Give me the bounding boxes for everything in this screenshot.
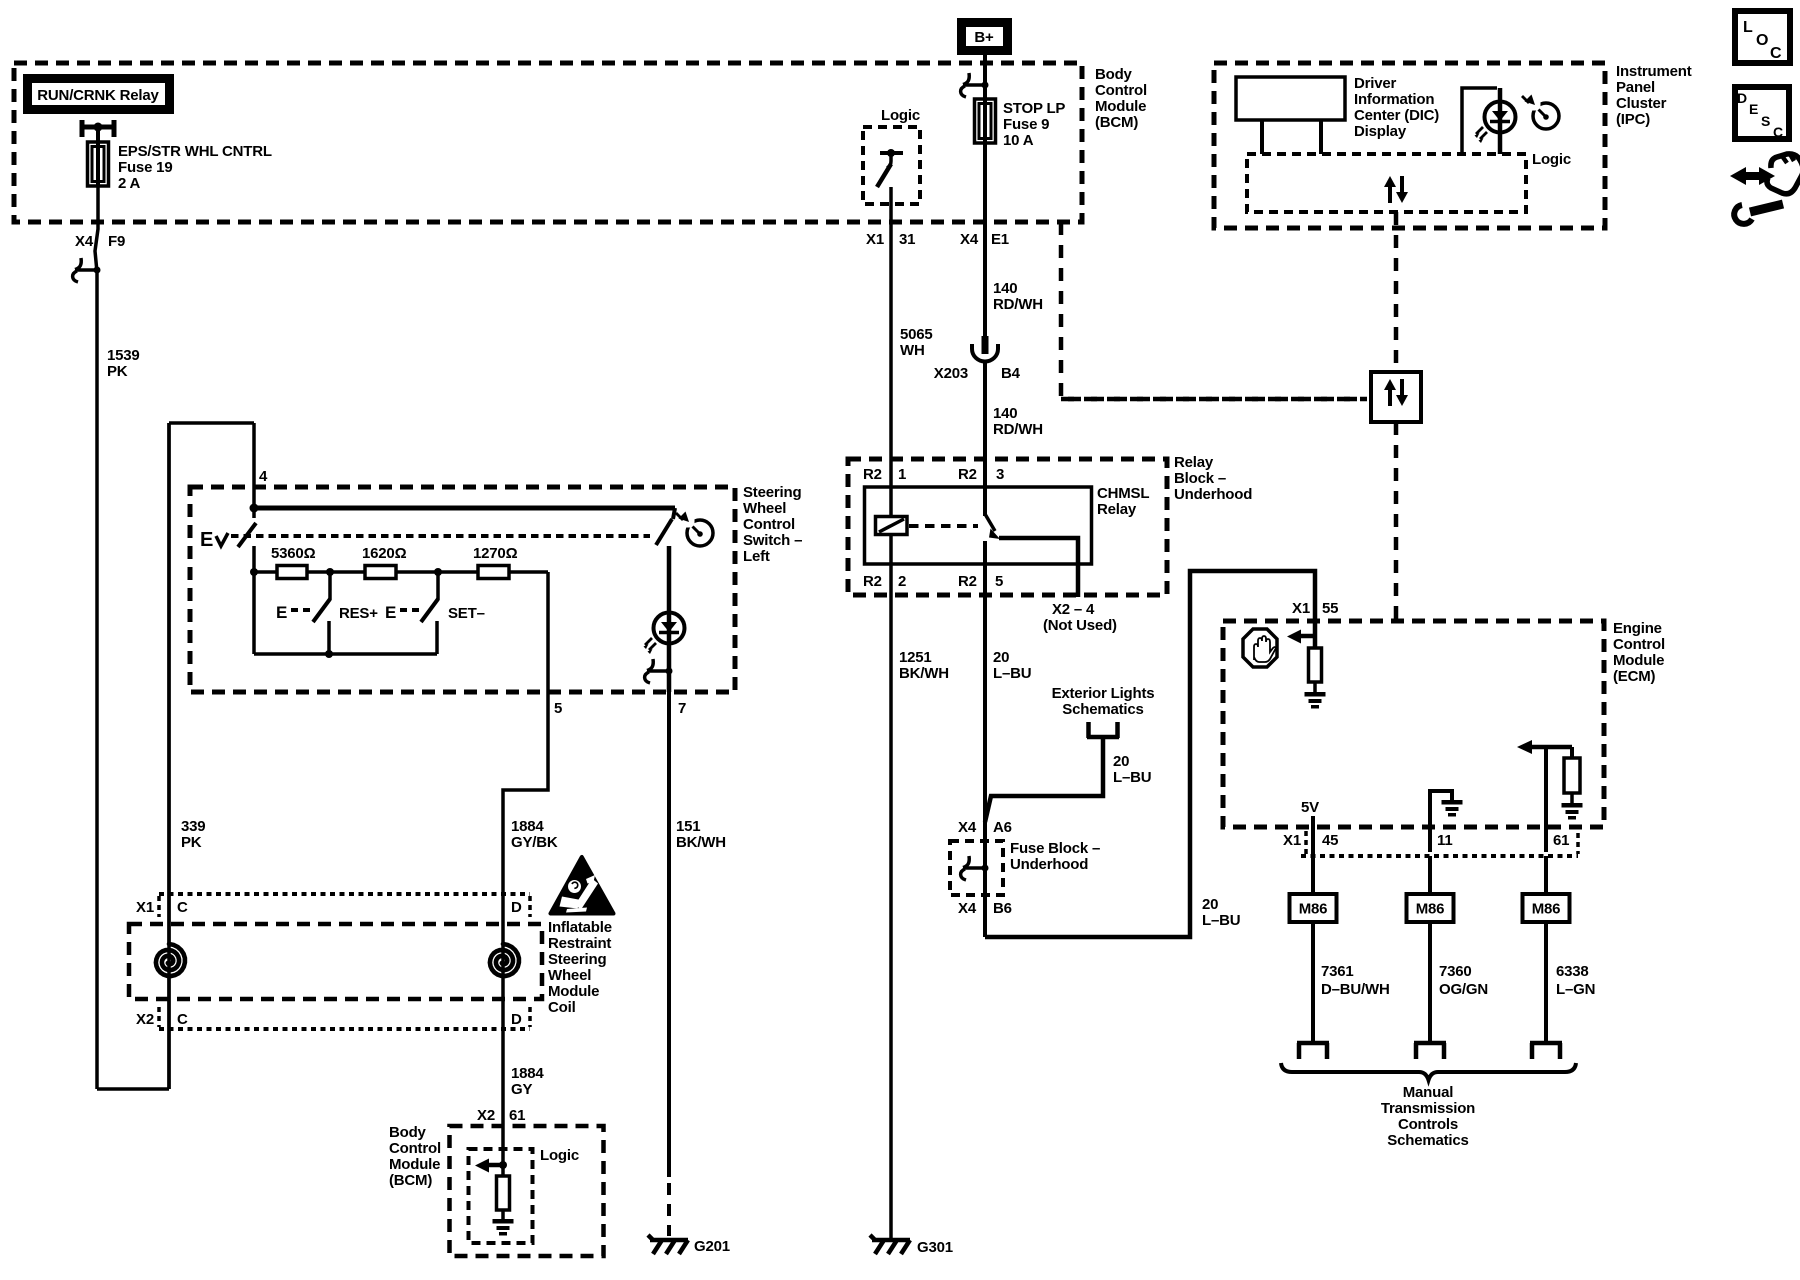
svg-text:Display: Display bbox=[1354, 123, 1407, 140]
wire DIC legs bbox=[1262, 120, 1321, 154]
relay K2 CHMSL Relay box bbox=[865, 487, 1092, 564]
brace manual transmission group bbox=[1281, 1063, 1576, 1080]
LED cruise indicator in switch bbox=[667, 546, 672, 613]
cruise control gauge icon bbox=[676, 512, 713, 547]
mechanical dashed link coil to contacts bbox=[909, 524, 978, 528]
resistor R3 1270 ohm bbox=[473, 545, 518, 579]
connector M86 pin61 bbox=[1523, 894, 1570, 922]
clip below LED bbox=[645, 659, 673, 683]
node pin4 junction bbox=[250, 504, 259, 513]
svg-text:20: 20 bbox=[1202, 896, 1218, 913]
terminal bracket 7360 bbox=[1414, 1043, 1446, 1059]
connector R2 pin 1 and pin 3 labels bbox=[863, 466, 1004, 483]
serial data dashed wire junction box to ECM bbox=[1394, 422, 1399, 621]
serial data junction box with arrows bbox=[1371, 372, 1421, 422]
wire LED to clip bbox=[667, 643, 672, 692]
svg-text:Restraint: Restraint bbox=[548, 935, 611, 952]
svg-text:G301: G301 bbox=[917, 1239, 953, 1256]
svg-text:5065: 5065 bbox=[900, 326, 933, 343]
Relay Block - Underhood box bbox=[848, 459, 1167, 595]
BCM lower label bbox=[389, 1124, 441, 1189]
svg-text:Exterior Lights: Exterior Lights bbox=[1052, 685, 1155, 702]
svg-text:L–BU: L–BU bbox=[1113, 769, 1151, 786]
serial data dashed wire IPC to junction box bbox=[1394, 212, 1399, 372]
svg-text:E: E bbox=[385, 603, 396, 622]
svg-text:11: 11 bbox=[1437, 832, 1452, 849]
wire LED leg bbox=[1498, 88, 1503, 154]
svg-text:X203: X203 bbox=[934, 365, 968, 382]
svg-text:A6: A6 bbox=[993, 819, 1012, 836]
svg-text:(IPC): (IPC) bbox=[1616, 111, 1650, 128]
svg-text:Control: Control bbox=[1613, 636, 1665, 653]
svg-text:X1: X1 bbox=[136, 899, 154, 916]
clip inside fuse block bbox=[961, 856, 989, 880]
svg-text:140: 140 bbox=[993, 405, 1017, 422]
svg-text:5V: 5V bbox=[1301, 799, 1319, 816]
svg-text:PK: PK bbox=[181, 834, 202, 851]
mechanical link dashed EV to cruise switch bbox=[231, 534, 650, 538]
Exterior Lights Schematics reference label bbox=[1052, 685, 1155, 718]
svg-text:D: D bbox=[511, 899, 522, 916]
svg-text:151: 151 bbox=[676, 818, 700, 835]
svg-text:Fuse 9: Fuse 9 bbox=[1003, 116, 1049, 133]
svg-text:Relay: Relay bbox=[1097, 501, 1137, 518]
svg-text:E: E bbox=[1749, 101, 1758, 117]
CHMSL Relay label bbox=[1097, 485, 1149, 518]
Instrument Panel Cluster (IPC) box bbox=[1214, 63, 1605, 228]
wire label 20 L-BU right bbox=[1202, 896, 1240, 929]
svg-text:4: 4 bbox=[259, 468, 268, 485]
wire 5V reference to M86 bbox=[1311, 816, 1315, 894]
svg-text:140: 140 bbox=[993, 280, 1017, 297]
svg-text:55: 55 bbox=[1322, 600, 1338, 617]
svg-text:PK: PK bbox=[107, 363, 128, 380]
wire resistor to ground bbox=[501, 1165, 505, 1176]
wire 140 RD/WH from fuse 9 to X203 bbox=[983, 143, 987, 337]
svg-text:Driver: Driver bbox=[1354, 75, 1397, 92]
svg-text:D: D bbox=[511, 1011, 522, 1028]
svg-text:BK/WH: BK/WH bbox=[676, 834, 726, 851]
LED cruise indicator in IPC bbox=[1475, 102, 1516, 144]
svg-text:Cluster: Cluster bbox=[1616, 95, 1667, 112]
inline connector X203 pin B4 bbox=[934, 336, 1021, 382]
solid state driver switch inside BCM logic bbox=[877, 149, 903, 187]
wire resistor rail bbox=[254, 570, 548, 574]
stop hand icon bbox=[1243, 629, 1277, 667]
connector X1 pin 31 labels bbox=[866, 231, 915, 248]
connector M86 pin45 bbox=[1290, 894, 1337, 922]
svg-text:X4: X4 bbox=[958, 900, 977, 917]
serial data dashed link BCM to junction box bbox=[1061, 397, 1367, 402]
node C junction bbox=[434, 568, 442, 576]
battery feed B+ terminal bbox=[957, 18, 1012, 55]
Engine Control Module (ECM) box bbox=[1223, 621, 1604, 827]
resistor R2 1620 ohm bbox=[362, 545, 407, 579]
svg-text:X2 – 4: X2 – 4 bbox=[1052, 601, 1095, 618]
svg-text:STOP LP: STOP LP bbox=[1003, 100, 1065, 117]
svg-text:EPS/STR WHL CNTRL: EPS/STR WHL CNTRL bbox=[118, 143, 272, 160]
svg-text:G201: G201 bbox=[694, 1238, 730, 1255]
svg-text:Left: Left bbox=[743, 548, 770, 565]
svg-text:R2: R2 bbox=[958, 466, 977, 483]
svg-text:10 A: 10 A bbox=[1003, 132, 1034, 149]
bus bar feed from RUN/CRNK relay bbox=[82, 120, 114, 143]
svg-text:RES+: RES+ bbox=[339, 605, 378, 622]
svg-text:WH: WH bbox=[900, 342, 925, 359]
off page connector to exterior lights bbox=[1087, 722, 1119, 738]
svg-text:45: 45 bbox=[1322, 832, 1338, 849]
terminal bracket 6338 bbox=[1530, 1043, 1562, 1059]
svg-text:Fuse Block –: Fuse Block – bbox=[1010, 840, 1100, 857]
svg-text:S: S bbox=[1761, 113, 1770, 129]
clip at X4 F9 bbox=[73, 258, 101, 282]
svg-text:Manual: Manual bbox=[1403, 1084, 1454, 1101]
fuse F19 value label bbox=[118, 143, 272, 192]
resistor R4 BCM pull-down bbox=[497, 1176, 510, 1210]
connector X4 pin B6 labels bbox=[958, 900, 1012, 917]
svg-text:Wheel: Wheel bbox=[743, 500, 786, 517]
svg-text:OG/GN: OG/GN bbox=[1439, 981, 1488, 998]
svg-text:X4: X4 bbox=[960, 231, 979, 248]
wire label 20 L-BU branch bbox=[1113, 753, 1151, 786]
connector X1 row of coil module bbox=[136, 894, 530, 917]
Inflatable Restraint Steering Wheel Module Coil box bbox=[129, 924, 542, 999]
svg-text:Module: Module bbox=[389, 1156, 440, 1173]
svg-text:5360Ω: 5360Ω bbox=[271, 545, 316, 562]
connector X2 row of coil module bbox=[136, 1007, 530, 1029]
X2-4 Not Used label bbox=[1043, 601, 1117, 634]
svg-text:1251: 1251 bbox=[899, 649, 932, 666]
wire B+ into BCM bbox=[983, 55, 987, 99]
connector M86 pin11 bbox=[1407, 894, 1454, 922]
DIC label bbox=[1354, 75, 1439, 140]
svg-text:Switch –: Switch – bbox=[743, 532, 802, 549]
switch S1 main blade bbox=[238, 508, 256, 547]
wire 7360 OG/GN bbox=[1428, 922, 1432, 1043]
wire 20 L-BU from relay pin 5 bbox=[983, 541, 987, 824]
svg-text:D–BU/WH: D–BU/WH bbox=[1321, 981, 1390, 998]
svg-text:Underhood: Underhood bbox=[1174, 486, 1252, 503]
ECM internal ground hook pin 11 bbox=[1430, 791, 1463, 852]
wire label 1884 GY bbox=[511, 1065, 544, 1098]
resistor R5 ECM pull bbox=[1309, 648, 1322, 682]
svg-text:L–BU: L–BU bbox=[993, 665, 1031, 682]
wire 6338 L-GN bbox=[1544, 922, 1548, 1043]
LED cruise indicator bracket in IPC bbox=[1462, 88, 1497, 154]
coil L1 clockspring spiral left bbox=[156, 944, 185, 976]
node B junction bbox=[326, 568, 334, 576]
DIC display box bbox=[1236, 77, 1345, 120]
svg-text:Logic: Logic bbox=[1532, 151, 1571, 168]
svg-text:Coil: Coil bbox=[548, 999, 576, 1016]
svg-text:D: D bbox=[1737, 90, 1747, 106]
svg-text:L–BU: L–BU bbox=[1202, 912, 1240, 929]
Logic box inside lower BCM bbox=[469, 1149, 533, 1243]
svg-text:7361: 7361 bbox=[1321, 963, 1354, 980]
wire 20 L-BU branch from exterior lights bbox=[985, 738, 1103, 822]
svg-text:1539: 1539 bbox=[107, 347, 140, 364]
ground internal ECM pin61 bbox=[1562, 803, 1583, 820]
svg-text:Underhood: Underhood bbox=[1010, 856, 1088, 873]
wire label 140 RD/WH upper bbox=[993, 280, 1043, 313]
wire left leg of resistor ladder bbox=[252, 546, 256, 654]
Body Control Module (BCM) outline box bbox=[14, 63, 1082, 222]
clip below B+ bbox=[961, 73, 989, 97]
node arrow junction bbox=[499, 1161, 507, 1169]
wire 20 L-BU to ECM X1 55 bbox=[985, 571, 1315, 937]
svg-text:Schematics: Schematics bbox=[1062, 701, 1143, 718]
interactive hand tool icon bbox=[1730, 154, 1800, 224]
svg-text:X2: X2 bbox=[136, 1011, 154, 1028]
wire relay NC contact to X2-4 bbox=[999, 538, 1078, 597]
connector X2 pin 61 labels at BCM bbox=[477, 1107, 525, 1124]
switch S2 RES+ bbox=[276, 572, 378, 654]
svg-text:L–GN: L–GN bbox=[1556, 981, 1595, 998]
wire resistor to ground bbox=[1570, 793, 1574, 803]
svg-text:B+: B+ bbox=[974, 29, 994, 46]
svg-text:R2: R2 bbox=[863, 466, 882, 483]
svg-text:1884: 1884 bbox=[511, 1065, 544, 1082]
svg-text:Logic: Logic bbox=[881, 107, 920, 124]
svg-text:B6: B6 bbox=[993, 900, 1012, 917]
svg-text:1620Ω: 1620Ω bbox=[362, 545, 407, 562]
svg-text:X2: X2 bbox=[477, 1107, 495, 1124]
wire top rail in switch bbox=[254, 506, 675, 511]
svg-text:R2: R2 bbox=[958, 573, 977, 590]
svg-text:(ECM): (ECM) bbox=[1613, 668, 1656, 685]
svg-text:1: 1 bbox=[898, 466, 906, 483]
svg-text:Instrument: Instrument bbox=[1616, 63, 1692, 80]
svg-text:Body: Body bbox=[1095, 66, 1133, 83]
svg-text:E: E bbox=[276, 603, 287, 622]
switch S3 SET- bbox=[385, 572, 485, 654]
switch S4 cruise on-off blade bbox=[656, 508, 675, 545]
signal arrow ECM pin 55 bbox=[1287, 630, 1315, 644]
svg-text:X1: X1 bbox=[866, 231, 884, 248]
wire 151 BK/WH down to G201 bbox=[667, 692, 671, 1236]
svg-text:20: 20 bbox=[993, 649, 1009, 666]
connector X4 pin E1 labels bbox=[960, 231, 1009, 248]
wire 1884 GY/BK from node C chain to pin 5 bbox=[503, 572, 548, 1165]
svg-text:O: O bbox=[1756, 32, 1768, 49]
Fuse Block - Underhood box bbox=[950, 841, 1003, 895]
ECM pin 61 internal branch bbox=[1517, 740, 1572, 852]
connector R2 pin 2 and pin 5 labels bbox=[863, 573, 1003, 590]
DESC hotspot icon bbox=[1735, 87, 1789, 140]
wire label 140 RD/WH lower bbox=[993, 405, 1043, 438]
BCM top-right label bbox=[1095, 66, 1147, 131]
svg-text:X4: X4 bbox=[958, 819, 977, 836]
fuse F9 STOP LP 10A bbox=[975, 99, 996, 143]
wire 1539 PK from fuse 19 to BCM connector X4 pin F9 bbox=[95, 186, 98, 1089]
svg-text:2: 2 bbox=[898, 573, 906, 590]
Logic box inside IPC bbox=[1247, 154, 1526, 212]
wire resistor to internal ground bbox=[1313, 682, 1317, 692]
wire 5065 WH / 1251 BK/WH from BCM X1 31 to G301 bbox=[889, 187, 893, 1240]
relay K2 switch blade bbox=[985, 514, 1000, 539]
svg-text:Center (DIC): Center (DIC) bbox=[1354, 107, 1439, 124]
svg-text:Transmission: Transmission bbox=[1381, 1100, 1475, 1117]
svg-text:BK/WH: BK/WH bbox=[899, 665, 949, 682]
svg-text:E1: E1 bbox=[991, 231, 1009, 248]
connector X4 pin F9 labels bbox=[75, 233, 125, 250]
IPC label bbox=[1616, 63, 1692, 128]
wire label 1251 BK/WH bbox=[899, 649, 949, 682]
svg-text:C: C bbox=[1773, 124, 1783, 140]
Steering Wheel Control Switch - Left box bbox=[190, 487, 735, 692]
connector X4 pin A6 labels bbox=[958, 819, 1012, 836]
svg-text:3: 3 bbox=[996, 466, 1004, 483]
svg-text:61: 61 bbox=[1553, 832, 1569, 849]
resistor R1 5360 ohm bbox=[271, 545, 316, 579]
svg-text:L: L bbox=[1743, 19, 1753, 36]
EV actuator symbol bbox=[200, 529, 228, 551]
svg-text:X1: X1 bbox=[1292, 600, 1310, 617]
svg-text:20: 20 bbox=[1113, 753, 1129, 770]
svg-text:C: C bbox=[177, 1011, 188, 1028]
cruise gauge icon in IPC bbox=[1522, 95, 1559, 130]
Logic box inside top BCM bbox=[863, 127, 920, 204]
wire 7361 D-BU/WH bbox=[1311, 922, 1315, 1043]
svg-text:Body: Body bbox=[389, 1124, 427, 1141]
svg-text:X1: X1 bbox=[1283, 832, 1301, 849]
wire pin 11 to M86 bbox=[1428, 856, 1432, 894]
svg-text:5: 5 bbox=[554, 700, 562, 717]
svg-text:C: C bbox=[1770, 45, 1782, 62]
svg-text:5: 5 bbox=[995, 573, 1003, 590]
svg-text:B4: B4 bbox=[1001, 365, 1021, 382]
svg-text:Control: Control bbox=[743, 516, 795, 533]
svg-text:7360: 7360 bbox=[1439, 963, 1472, 980]
node A resistor rail left bbox=[250, 568, 258, 576]
svg-text:1270Ω: 1270Ω bbox=[473, 545, 518, 562]
wire labels 339 PK / 1884 GY/BK / 151 BK/WH bbox=[181, 818, 726, 851]
svg-text:Steering: Steering bbox=[548, 951, 606, 968]
Steering Wheel Control Switch label bbox=[743, 484, 802, 565]
BCM serial-data step outline bbox=[1061, 222, 1367, 399]
wire labels 7361 7360 6338 bbox=[1321, 963, 1595, 998]
svg-text:6338: 6338 bbox=[1556, 963, 1589, 980]
svg-text:R2: R2 bbox=[863, 573, 882, 590]
svg-text:Schematics: Schematics bbox=[1387, 1132, 1468, 1149]
svg-text:Steering: Steering bbox=[743, 484, 801, 501]
ground internal BCM bbox=[493, 1219, 514, 1236]
wire elbow to steering wheel switch bbox=[97, 423, 254, 1089]
ground internal ECM pin55 bbox=[1305, 692, 1326, 709]
svg-text:1884: 1884 bbox=[511, 818, 544, 835]
svg-text:RUN/CRNK Relay: RUN/CRNK Relay bbox=[37, 87, 159, 104]
svg-text:GY: GY bbox=[511, 1081, 532, 1098]
ECM label bbox=[1613, 620, 1665, 685]
svg-text:Logic: Logic bbox=[540, 1147, 579, 1164]
connector X1 row of ECM bbox=[1283, 831, 1578, 856]
fuse F19 EPS/STR WHL CNTRL 2A bbox=[88, 142, 109, 186]
svg-text:RD/WH: RD/WH bbox=[993, 421, 1043, 438]
Inflatable Restraint Steering Wheel Module Coil label bbox=[548, 919, 612, 1016]
svg-text:Engine: Engine bbox=[1613, 620, 1662, 637]
ground G201 bbox=[648, 1235, 730, 1255]
svg-text:(Not Used): (Not Used) bbox=[1043, 617, 1117, 634]
svg-text:7: 7 bbox=[678, 700, 686, 717]
wire label 5065 WH bbox=[900, 326, 933, 359]
svg-text:X4: X4 bbox=[75, 233, 94, 250]
svg-text:Module: Module bbox=[548, 983, 599, 1000]
svg-text:RD/WH: RD/WH bbox=[993, 296, 1043, 313]
svg-text:Module: Module bbox=[1095, 98, 1146, 115]
Relay Block - Underhood label bbox=[1174, 454, 1252, 503]
svg-text:339: 339 bbox=[181, 818, 205, 835]
svg-text:SET–: SET– bbox=[448, 605, 485, 622]
relay K1 RUN/CRNK Relay label box bbox=[23, 74, 174, 114]
wire bottom rail bbox=[254, 652, 437, 656]
svg-text:Panel: Panel bbox=[1616, 79, 1655, 96]
svg-text:Control: Control bbox=[1095, 82, 1147, 99]
svg-text:Controls: Controls bbox=[1398, 1116, 1458, 1133]
coil L2 clockspring spiral right bbox=[490, 944, 519, 976]
relay K2 coil bbox=[876, 517, 908, 535]
svg-text:Control: Control bbox=[389, 1140, 441, 1157]
wire pin 61 to M86 bbox=[1544, 856, 1548, 894]
svg-text:2 A: 2 A bbox=[118, 175, 141, 192]
svg-text:Module: Module bbox=[1613, 652, 1664, 669]
svg-text:Information: Information bbox=[1354, 91, 1434, 108]
svg-text:(BCM): (BCM) bbox=[389, 1172, 432, 1189]
svg-text:61: 61 bbox=[509, 1107, 525, 1124]
svg-text:Block –: Block – bbox=[1174, 470, 1226, 487]
serial data arrows in IPC logic bbox=[1384, 176, 1408, 203]
LOC hotspot icon bbox=[1735, 11, 1790, 63]
wire label 20 L-BU bbox=[993, 649, 1031, 682]
wire label 1539 PK bbox=[107, 347, 140, 380]
svg-text:31: 31 bbox=[899, 231, 915, 248]
svg-text:Fuse 19: Fuse 19 bbox=[118, 159, 172, 176]
wire through fuse block bbox=[983, 822, 987, 937]
resistor R6 ECM pin61 bbox=[1564, 758, 1580, 793]
svg-text:F9: F9 bbox=[108, 233, 125, 250]
Body Control Module (BCM) lower box bbox=[450, 1126, 604, 1256]
node D bottom rail junction bbox=[325, 650, 333, 658]
Fuse Block - Underhood label bbox=[1010, 840, 1100, 873]
svg-text:Wheel: Wheel bbox=[548, 967, 591, 984]
wire 339 PK through coil bbox=[167, 423, 171, 944]
svg-text:GY/BK: GY/BK bbox=[511, 834, 558, 851]
wire 140 RD/WH to relay bbox=[983, 362, 987, 516]
svg-text:Inflatable: Inflatable bbox=[548, 919, 612, 936]
connector X1 pin 55 labels bbox=[1292, 600, 1338, 617]
svg-text:E: E bbox=[200, 529, 213, 551]
signal arrow into BCM logic bbox=[475, 1159, 503, 1173]
fuse F9 label bbox=[1003, 100, 1065, 149]
Manual Transmission Controls Schematics label bbox=[1381, 1084, 1475, 1149]
terminal bracket 7361 bbox=[1297, 1043, 1329, 1059]
svg-text:(BCM): (BCM) bbox=[1095, 114, 1138, 131]
svg-text:CHMSL: CHMSL bbox=[1097, 485, 1149, 502]
ground G301 bbox=[870, 1235, 953, 1256]
airbag warning triangle icon bbox=[551, 857, 614, 914]
svg-text:Relay: Relay bbox=[1174, 454, 1214, 471]
svg-text:C: C bbox=[177, 899, 188, 916]
